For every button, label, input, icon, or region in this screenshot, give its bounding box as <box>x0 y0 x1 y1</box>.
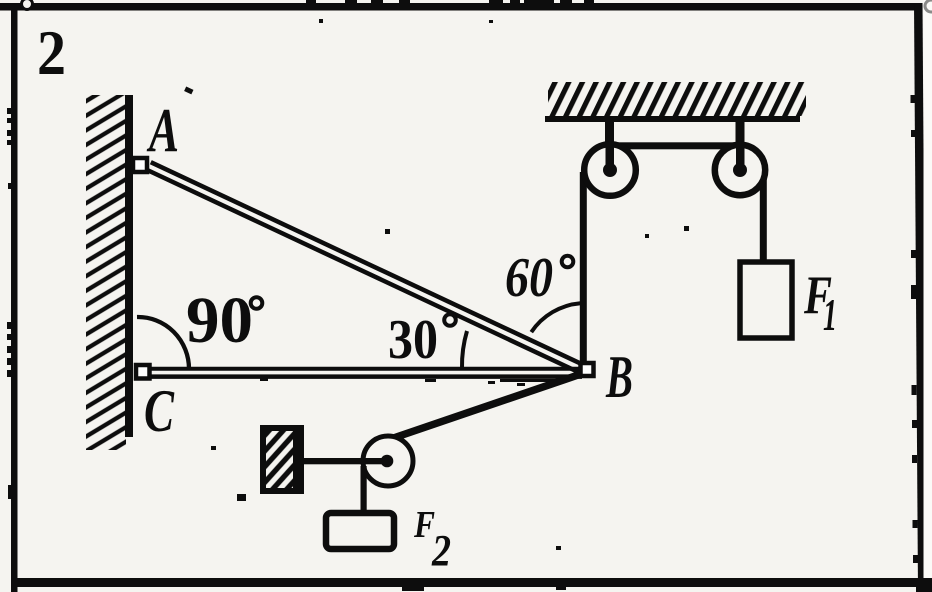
angle arc 60 <box>531 303 580 332</box>
svg-text:A: A <box>146 97 179 165</box>
pulley left <box>584 144 636 196</box>
wall face line <box>125 95 133 437</box>
pulley hanger right <box>736 118 745 170</box>
svg-text:2: 2 <box>37 17 66 88</box>
frame left border <box>7 3 18 592</box>
frame top border <box>0 0 921 11</box>
scan speckles <box>184 19 689 550</box>
weight F1 box <box>740 262 792 338</box>
rod AB (double line) <box>147 162 582 372</box>
rod CB (double line) <box>148 369 582 386</box>
rope B up to pulley <box>580 172 587 364</box>
rope across pulley tops <box>606 142 744 149</box>
top-right grey partial ring <box>925 0 932 12</box>
svg-text:C: C <box>144 378 175 444</box>
anchor block <box>263 428 301 491</box>
bottom-right corner chunk <box>916 578 932 592</box>
rope B to lower pulley <box>392 374 581 439</box>
rope pulley to F2 <box>361 466 367 513</box>
svg-text:60: 60 <box>505 247 553 309</box>
ceiling hatch <box>548 82 806 116</box>
label F2 <box>413 504 451 575</box>
svg-text:90: 90 <box>186 284 253 357</box>
label 60deg <box>505 247 573 309</box>
link block to pulley <box>300 458 389 464</box>
angle arc 30 <box>462 331 467 368</box>
svg-text:1: 1 <box>823 289 837 340</box>
lower pulley <box>363 436 413 486</box>
rope down to F1 <box>760 168 767 262</box>
svg-text:30: 30 <box>388 309 438 371</box>
ceiling line <box>545 116 800 122</box>
label 90deg <box>186 284 262 357</box>
pulley hanger left <box>605 118 614 170</box>
corner ring artifact <box>22 0 33 10</box>
wall hatch left <box>86 95 126 450</box>
angle arc 90 <box>137 317 189 369</box>
point A marker <box>133 158 147 172</box>
point C marker <box>136 365 150 379</box>
svg-text:B: B <box>605 344 633 410</box>
point B marker <box>581 363 594 376</box>
label 30deg <box>388 309 456 371</box>
weight F2 box <box>326 513 394 549</box>
svg-text:2: 2 <box>431 526 451 575</box>
frame bottom border <box>11 578 924 591</box>
pulley right <box>715 145 765 195</box>
label F1 <box>803 265 837 340</box>
frame right border <box>911 3 927 592</box>
outer margin right <box>924 0 932 592</box>
